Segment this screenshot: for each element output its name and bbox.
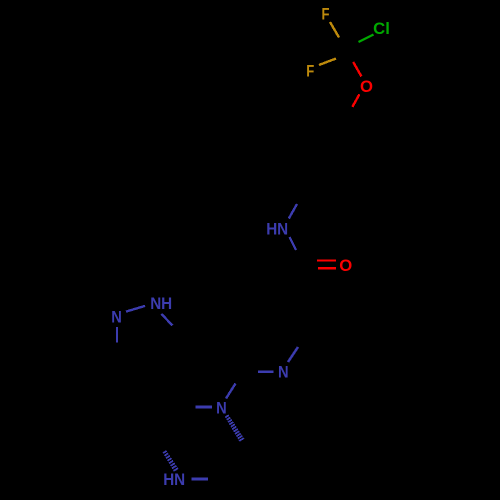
svg-text:NH: NH [150,294,172,313]
svg-text:F: F [322,5,330,24]
svg-text:Cl: Cl [373,19,390,38]
wire N2-C3 half (vertical) [116,327,118,343]
svg-text:O: O [360,77,373,96]
wire C-F1 (chlorodifluoromethyl carbon to top fluorine) [330,22,339,38]
wire N1(pip)-C6' half (horizontal) [196,406,213,409]
wire C-Cl [359,35,374,43]
wire N-C(=O) half [290,237,297,250]
hashed wedge N1(pip)-C2' [225,415,244,441]
svg-text:F: F [306,62,314,81]
carbonyl C=O double bond (red halves) [317,259,336,261]
svg-text:N: N [216,399,227,418]
wire C-F2 (left fluorine) [319,59,336,66]
wire N1-C5 half [162,314,173,326]
wire N2-N1 pyrazole (full) [126,306,145,312]
svg-text:HN: HN [163,470,185,489]
svg-text:HN: HN [266,220,288,239]
svg-text:O: O [339,256,352,275]
svg-text:N: N [111,307,122,326]
wire N(py)-C6 half [258,370,274,373]
wire O-aryl lower half [352,94,359,107]
hashed wedge C5'-N4(H) [163,451,178,471]
wire N1(pip)-C6(py) half [226,384,236,399]
svg-text:N: N [278,363,289,382]
wire N(py)-C2 half [288,347,298,362]
wire aryl-N(H) amide half [289,204,297,219]
wire N4-C3' half (horizontal) [191,478,207,481]
wire C-O ether upper half [353,62,361,76]
